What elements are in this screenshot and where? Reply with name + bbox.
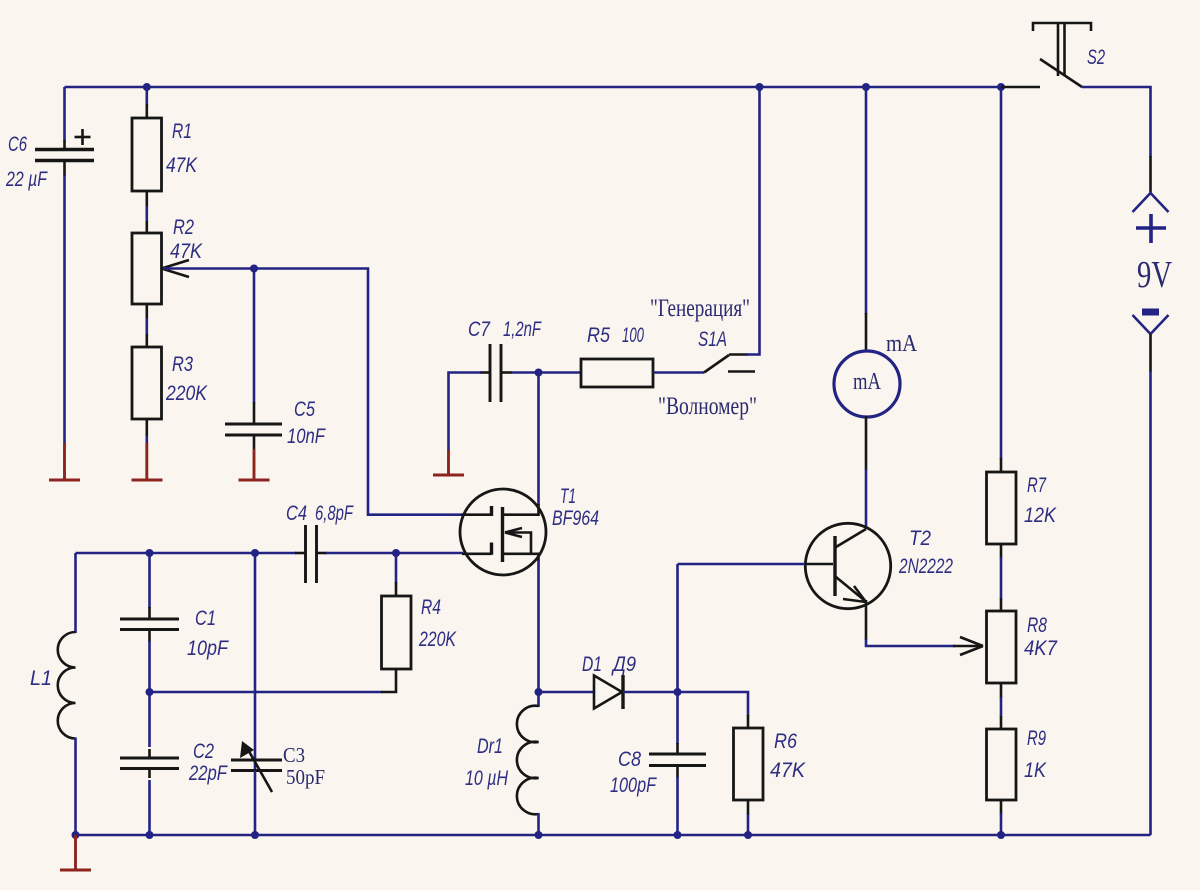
svg-text:R3: R3 [172, 353, 193, 376]
capacitor C4 [304, 525, 307, 583]
capacitor C6 [35, 148, 94, 151]
wire C5 to ground [253, 435, 256, 450]
wire switch to bus [746, 87, 760, 355]
ground R3 [145, 443, 148, 480]
T2 collector [836, 529, 866, 547]
svg-text:12K: 12K [1024, 504, 1057, 527]
node gate1/R4 [392, 549, 400, 557]
wire bus to R1 [146, 87, 149, 106]
wire D1 cathode [623, 691, 678, 694]
polarity plus C6 [75, 136, 91, 139]
svg-text:R7: R7 [1027, 474, 1047, 497]
wire D1 anode [539, 691, 596, 694]
wire C4 to T1 gate1 [317, 552, 328, 555]
variable capacitor C3 [231, 759, 282, 762]
node bus/S1A [756, 83, 764, 91]
svg-text:C4: C4 [286, 502, 307, 525]
wire R4 bottom [381, 669, 396, 692]
T1 substrate arrow [505, 533, 531, 554]
wire R8 to R9 [1000, 683, 1003, 698]
wire C3 top [254, 553, 257, 771]
capacitor C5 [225, 423, 282, 426]
wire R2 wiper [163, 269, 462, 515]
resistor R9 [987, 729, 1017, 800]
T1 gate bars [490, 506, 493, 516]
node bus/R1 [143, 83, 151, 91]
svg-text:mA: mA [853, 369, 882, 395]
svg-text:C3: C3 [283, 743, 305, 767]
svg-text:220K: 220K [165, 382, 208, 405]
node wiper/C5 [250, 265, 258, 273]
T2 emitter with arrow [836, 577, 864, 600]
wire C8 bottom [676, 766, 679, 779]
wire C1 bottom [148, 630, 151, 643]
svg-text:100pF: 100pF [610, 774, 657, 797]
switch S1A bottom contact [728, 370, 755, 373]
node bus/R6 [744, 831, 752, 839]
svg-text:C2: C2 [193, 740, 214, 763]
wire tank top [76, 552, 297, 555]
svg-text:2N2222: 2N2222 [898, 555, 953, 578]
svg-text:R9: R9 [1027, 727, 1046, 750]
wire C7 left to ground [480, 371, 490, 374]
resistor R4 [382, 596, 412, 669]
wire bottom ground bus [76, 834, 1151, 837]
wire C2 bottom [148, 769, 151, 779]
R8 wiper arrow [953, 645, 983, 648]
svg-text:L1: L1 [30, 667, 52, 690]
wire mid tap [150, 691, 383, 694]
wire bus to R7 [1000, 87, 1003, 459]
svg-text:T1: T1 [560, 485, 576, 508]
svg-text:R1: R1 [172, 120, 192, 143]
node bus/L1 [72, 831, 80, 839]
wire C6 top [63, 87, 66, 141]
svg-text:1,2nF: 1,2nF [503, 318, 542, 341]
switch S2 left contact [1001, 86, 1040, 89]
node detector [674, 688, 682, 696]
wire R3 to ground [146, 419, 149, 437]
wire top supply bus [65, 86, 1002, 89]
wire C7 right [501, 371, 512, 374]
wire S2 to battery [1082, 87, 1151, 157]
svg-text:R8: R8 [1027, 614, 1047, 637]
svg-text:S1A: S1A [698, 328, 727, 351]
wire bus to mA meter [865, 87, 868, 314]
T1 channel [501, 507, 504, 562]
wire R2 to R3 [146, 304, 149, 319]
wire detector to R6 [678, 692, 749, 716]
node tank/C3 [251, 549, 259, 557]
switch S2 button [1033, 23, 1091, 31]
potentiometer R8 [987, 611, 1017, 683]
wire C6 to ground [63, 161, 66, 177]
wire gate2 into T1 [461, 513, 492, 516]
svg-text:D1: D1 [582, 653, 602, 676]
resistor R1 [132, 118, 162, 191]
potentiometer R2 [132, 233, 162, 304]
wire R6 bottom [747, 800, 750, 815]
node C7/R5/T1 [535, 369, 543, 377]
inductor Dr1 [537, 692, 540, 707]
wire C1 top [148, 553, 151, 608]
svg-text:C1: C1 [195, 607, 216, 630]
diode D1 [594, 676, 622, 709]
node bus/Dr1 [535, 831, 543, 839]
switch S2 blade [1040, 59, 1082, 87]
wire T2 base [678, 563, 807, 566]
ground bottom left [74, 835, 77, 870]
wire R5 to switch [653, 371, 704, 374]
resistor R3 [132, 347, 162, 419]
switch S1A top contact [729, 353, 748, 356]
T1 source [503, 554, 539, 561]
transistor T1 circle [460, 489, 546, 575]
battery positive terminal [1133, 193, 1169, 212]
T1 drain [503, 504, 539, 515]
svg-text:50pF: 50pF [286, 765, 325, 789]
T2 base bar [833, 536, 836, 596]
wire T1 drain [537, 373, 540, 506]
wire battery to bottom bus [1149, 334, 1152, 372]
svg-text:C5: C5 [294, 398, 315, 421]
wire base down to detector node [676, 564, 679, 692]
capacitor C1 [120, 618, 179, 621]
capacitor C8 [649, 753, 706, 756]
wire T1 source down [537, 560, 540, 692]
svg-text:Д9: Д9 [611, 653, 636, 676]
svg-text:22pF: 22pF [188, 762, 228, 785]
svg-text:C8: C8 [618, 748, 641, 771]
wire R4 top [395, 553, 398, 583]
capacitor C2 [120, 757, 179, 760]
node mid/C1 [146, 688, 154, 696]
svg-text:S2: S2 [1087, 46, 1105, 69]
svg-text:220K: 220K [418, 628, 457, 651]
svg-text:R2: R2 [173, 216, 194, 239]
svg-text:"Генерация": "Генерация" [650, 295, 750, 322]
node bus/C8 [674, 831, 682, 839]
wire C5 top [253, 269, 256, 404]
wire C8 top [676, 692, 679, 744]
node bus/R9 [997, 831, 1005, 839]
ground C6 [63, 443, 66, 480]
milliammeter mA [834, 351, 900, 417]
wire C2 top [148, 692, 151, 747]
svg-text:47K: 47K [770, 759, 806, 782]
svg-text:9V: 9V [1137, 254, 1172, 296]
R2 wiper arrow [162, 260, 190, 269]
resistor R7 [987, 472, 1017, 544]
C3 arrow [246, 746, 272, 792]
wire C3 bottom [254, 771, 257, 836]
resistor R5 [581, 359, 653, 387]
svg-text:100: 100 [622, 324, 644, 347]
svg-text:10 µH: 10 µH [465, 767, 509, 790]
resistor R6 [734, 728, 764, 800]
svg-text:R4: R4 [421, 596, 441, 619]
node tank/C1 [146, 549, 154, 557]
svg-text:mA: mA [886, 331, 918, 357]
svg-text:10nF: 10nF [287, 425, 326, 448]
ground C5 [253, 449, 256, 480]
wire R7 to R8 [1000, 544, 1003, 558]
capacitor C7 [489, 344, 492, 402]
svg-text:"Волномер": "Волномер" [658, 393, 757, 420]
wire T2 emitter down [865, 600, 868, 640]
svg-text:22 µF: 22 µF [5, 168, 48, 191]
battery negative terminal [1142, 309, 1159, 316]
svg-text:Dr1: Dr1 [477, 735, 503, 758]
svg-text:BF964: BF964 [552, 507, 599, 530]
svg-text:R5: R5 [587, 324, 610, 347]
wire mA to T2 collector [865, 416, 868, 470]
node bus/mA [862, 83, 870, 91]
svg-text:R6: R6 [774, 730, 797, 753]
node bus/C2 [146, 831, 154, 839]
svg-text:4K7: 4K7 [1024, 637, 1058, 660]
wire R1 to R2 [146, 191, 149, 207]
svg-text:C7: C7 [468, 318, 491, 341]
node bus/C3 [251, 831, 259, 839]
transistor T2 circle [805, 523, 890, 608]
switch S1A blade [704, 355, 729, 373]
svg-text:1K: 1K [1024, 759, 1047, 782]
wire R9 to bus [1000, 800, 1003, 814]
svg-text:T2: T2 [909, 527, 931, 550]
svg-text:6,8pF: 6,8pF [315, 502, 354, 525]
inductor L1 [74, 553, 77, 633]
node source/Dr1/D1 [535, 688, 543, 696]
svg-text:10pF: 10pF [187, 637, 229, 660]
svg-text:C6: C6 [8, 133, 27, 156]
ground C7 [447, 450, 450, 475]
node bus/R7 [997, 83, 1005, 91]
svg-text:47K: 47K [166, 154, 198, 177]
